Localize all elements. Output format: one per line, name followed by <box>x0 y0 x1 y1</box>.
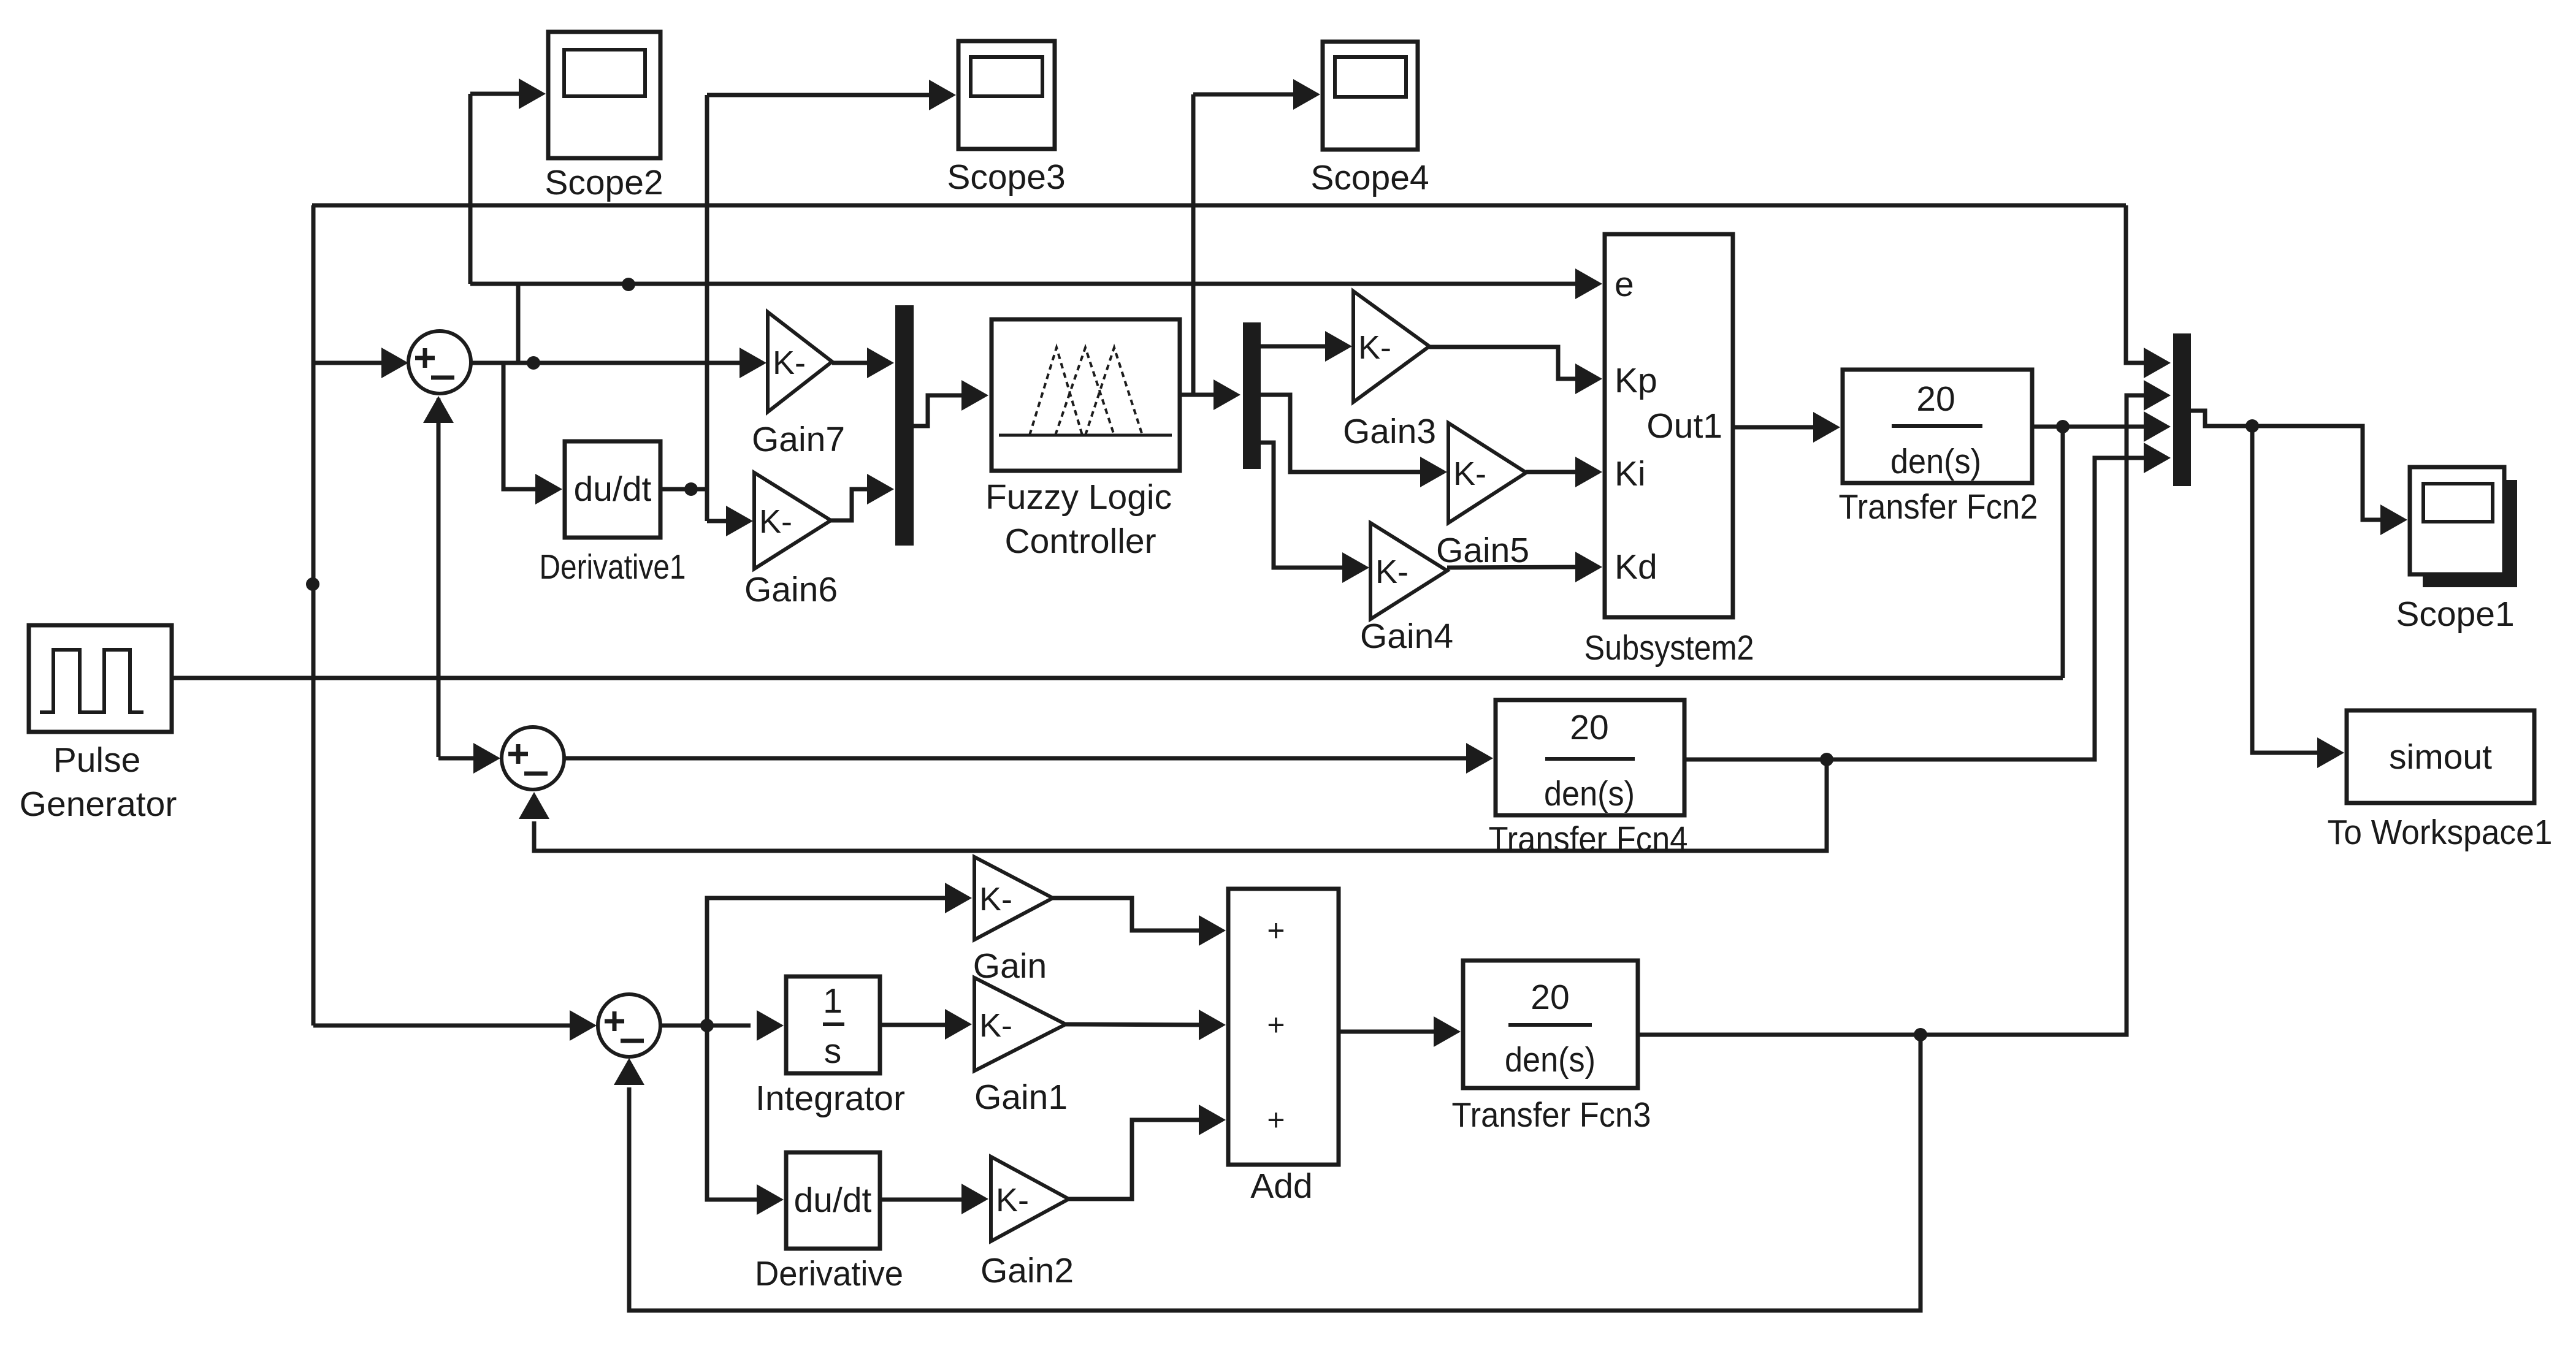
svg-text:du/dt: du/dt <box>794 1181 872 1220</box>
scope block Scope3 <box>947 41 1065 197</box>
svg-text:Kd: Kd <box>1615 547 1657 587</box>
wire branch down to Derivative1 <box>503 363 541 489</box>
block Derivative (du/dt) <box>755 1152 903 1293</box>
gain block Gain5 <box>1436 423 1529 570</box>
block Add <box>1228 889 1339 1206</box>
svg-text:Generator: Generator <box>20 785 177 824</box>
svg-text:e: e <box>1615 265 1634 304</box>
svg-text:Scope1: Scope1 <box>2396 595 2514 634</box>
arrow into Add plus3 <box>1199 1105 1226 1135</box>
svg-text:den(s): den(s) <box>1890 442 1981 481</box>
gain block Gain <box>973 857 1053 986</box>
sum block sum1 <box>408 331 471 394</box>
wire Gain7 output <box>832 361 873 365</box>
wire Gain2 output to Add <box>1069 1120 1205 1199</box>
wire Transfer Fcn2 output to big mux <box>2032 425 2147 429</box>
wire Add output to Transfer Fcn3 <box>1339 1030 1440 1034</box>
svg-text:20: 20 <box>1916 379 1955 419</box>
sum block middle sum <box>502 727 564 790</box>
svg-text:Ki: Ki <box>1615 454 1646 493</box>
arrow into Subsystem2 Ki <box>1575 457 1602 487</box>
junction dot bottom sum output branch <box>700 1019 714 1032</box>
svg-text:K-: K- <box>996 1182 1029 1219</box>
wire Scope3 feed <box>707 93 935 97</box>
arrow into Transfer Fcn2 <box>1813 412 1840 443</box>
wire Scope2 feed <box>470 92 525 96</box>
svg-text:Controller: Controller <box>1004 522 1156 561</box>
svg-text:Transfer Fcn4: Transfer Fcn4 <box>1489 820 1688 859</box>
block Pulse Generator <box>20 625 177 824</box>
wire Fuzzy output <box>1180 393 1220 397</box>
svg-text:K-: K- <box>979 1007 1012 1044</box>
svg-text:K-: K- <box>1358 329 1391 366</box>
arrow up into middle sum bottom <box>519 792 549 819</box>
block Transfer Fcn2 <box>1839 370 2038 527</box>
scope block Scope4 <box>1310 42 1429 197</box>
block Transfer Fcn4 <box>1489 700 1688 859</box>
svg-text:Scope4: Scope4 <box>1310 158 1429 197</box>
junction dot sum1 output branch <box>527 356 540 370</box>
svg-text:Gain6: Gain6 <box>744 570 838 609</box>
svg-text:+: + <box>1267 1008 1285 1042</box>
arrow into Gain3 <box>1325 331 1352 362</box>
arrow into Derivative <box>757 1184 784 1215</box>
svg-text:Transfer Fcn2: Transfer Fcn2 <box>1839 487 2038 527</box>
mux block big (4-input scope mux) <box>2173 333 2191 486</box>
svg-text:den(s): den(s) <box>1505 1040 1596 1079</box>
arrow into sum1 <box>381 348 408 378</box>
gain block Gain3 <box>1343 291 1436 451</box>
arrow into big mux input4 <box>2144 443 2171 473</box>
mux block (2-input mux before fuzzy controller) <box>895 305 914 546</box>
wire Transfer Fcn3 output to big mux input 2 <box>1638 395 2149 1035</box>
demux block (after fuzzy controller) <box>1243 322 1261 469</box>
junction dot Derivative1 output branch <box>684 482 698 496</box>
wire branch to To Workspace1 <box>2252 426 2323 753</box>
wire branch down to Derivative <box>707 1026 763 1200</box>
arrow into Gain4 <box>1342 552 1369 583</box>
wire into Gain6 <box>707 519 732 523</box>
arrow into Gain7 <box>740 348 766 378</box>
wire reference into bottom sum <box>313 1024 574 1028</box>
arrow into middle sum left <box>473 743 500 774</box>
arrow into big mux input3 <box>2144 411 2171 442</box>
wire Gain4 output to Kd <box>1447 567 1581 568</box>
arrow into Gain <box>945 883 972 913</box>
svg-text:20: 20 <box>1531 978 1569 1017</box>
block Integrator (1/s) <box>755 976 905 1118</box>
wire Derivative1 output <box>660 487 707 492</box>
arrow into Add plus1 <box>1199 915 1226 946</box>
svg-text:Pulse: Pulse <box>53 740 141 780</box>
wire into middle sum left input <box>438 756 480 761</box>
wire into sum1 left input <box>313 361 386 365</box>
svg-text:Derivative1: Derivative1 <box>540 547 686 587</box>
svg-text:K-: K- <box>759 503 792 540</box>
gain block Gain7 <box>752 312 845 459</box>
svg-text:Gain1: Gain1 <box>974 1078 1068 1117</box>
arrow into Scope3 <box>929 80 956 110</box>
arrow into mux from Gain6 <box>867 474 894 504</box>
svg-text:K-: K- <box>1375 554 1408 590</box>
wire Scope4 vertical x=1946 <box>1191 94 1196 395</box>
svg-text:Fuzzy Logic: Fuzzy Logic <box>985 478 1172 517</box>
svg-text:Transfer Fcn3: Transfer Fcn3 <box>1452 1095 1651 1135</box>
arrow into Subsystem2 e <box>1575 268 1602 299</box>
wire Mux output into Fuzzy Logic Controller <box>914 395 968 426</box>
wire Transfer Fcn4 output to big mux input 4 <box>1684 458 2147 759</box>
svg-text:+: + <box>1267 1103 1285 1137</box>
block Fuzzy Logic Controller <box>985 319 1180 561</box>
svg-text:K-: K- <box>979 881 1012 918</box>
svg-text:den(s): den(s) <box>1544 774 1635 813</box>
arrow up into bottom sum <box>614 1058 644 1085</box>
svg-text:20: 20 <box>1570 708 1608 747</box>
wire sum1 output <box>471 361 746 365</box>
wire Transfer Fcn2 feedback drop x=3364 <box>2061 427 2065 678</box>
gain block Gain4 <box>1360 523 1453 656</box>
block Transfer Fcn3 <box>1452 961 1651 1135</box>
wire feedback vertical x=715 (sum1 minus / middle sum feed) <box>437 398 441 757</box>
arrow into mux from Gain7 <box>867 348 894 378</box>
svg-text:1: 1 <box>823 981 843 1021</box>
svg-text:K-: K- <box>1453 455 1486 492</box>
arrow into big mux input2 <box>2144 380 2171 411</box>
wire Demux output 1 to Gain3 <box>1261 344 1331 349</box>
arrow into Derivative1 <box>535 474 562 504</box>
wire branch up to Gain <box>707 898 951 1026</box>
svg-text:du/dt: du/dt <box>574 470 652 509</box>
wire middle sum output <box>564 756 1472 761</box>
wire Scope4 feed <box>1193 93 1299 97</box>
scope block Scope1 (with shadow) <box>2396 467 2517 634</box>
wire Gain output to Add <box>1053 898 1205 930</box>
svg-text:Add: Add <box>1250 1166 1312 1206</box>
arrow into Subsystem2 Kd <box>1575 552 1602 582</box>
wire Gain3 output to Kp <box>1429 347 1581 379</box>
arrow into Gain6 <box>726 506 753 536</box>
svg-text:+: + <box>1267 913 1285 948</box>
wire Transfer Fcn4 feedback <box>534 759 1827 851</box>
wire bus drop into big mux input 1 <box>2126 205 2149 363</box>
arrow into Subsystem2 Kp <box>1575 363 1602 394</box>
arrow into Gain5 <box>1420 457 1447 487</box>
arrow into bottom sum <box>570 1010 597 1041</box>
svg-text:Gain5: Gain5 <box>1436 531 1529 570</box>
svg-text:simout: simout <box>2389 737 2492 777</box>
svg-text:Gain2: Gain2 <box>980 1251 1074 1290</box>
gain block Gain2 <box>980 1157 1074 1290</box>
block Subsystem2 <box>1584 234 1754 668</box>
wire big mux output to Scope1 <box>2191 411 2387 520</box>
svg-text:Gain4: Gain4 <box>1360 617 1453 656</box>
svg-text:s: s <box>824 1032 842 1071</box>
wire Derivative output to Gain2 <box>880 1198 968 1202</box>
svg-text:Out1: Out1 <box>1646 406 1722 446</box>
block To Workspace1 (simout) <box>2328 710 2553 852</box>
wire Gain6 output <box>831 489 873 520</box>
wire Transfer Fcn3 feedback (bottom loop) <box>629 1035 1921 1311</box>
svg-text:K-: K- <box>773 344 806 381</box>
junction dot on e-bus <box>622 278 635 291</box>
junction dot Transfer Fcn4 output branch <box>1820 753 1833 766</box>
svg-text:Gain3: Gain3 <box>1343 412 1436 451</box>
wire pulse bus y=1106 (Pulse Generator output / plant feedback return) <box>170 676 2063 680</box>
svg-text:Subsystem2: Subsystem2 <box>1584 628 1754 668</box>
arrow into big mux input1 <box>2144 348 2171 378</box>
svg-text:Gain: Gain <box>973 946 1047 986</box>
arrow into demux <box>1213 379 1240 410</box>
svg-text:Scope2: Scope2 <box>545 163 663 202</box>
wire bottom sum output <box>660 1024 751 1028</box>
gain block Gain6 <box>744 473 838 609</box>
svg-text:Kp: Kp <box>1615 361 1657 400</box>
svg-text:Gain7: Gain7 <box>752 420 845 459</box>
junction dot Transfer Fcn2 output branch <box>2056 420 2070 433</box>
wire top bus y=335 (reference to scope mux) <box>312 204 2126 208</box>
wire Demux output 3 to Gain4 <box>1261 443 1348 568</box>
arrow into Fuzzy Logic Controller <box>961 380 988 411</box>
gain block Gain1 <box>974 978 1068 1117</box>
wire long vertical x=511 (reference distribution) <box>311 205 316 1026</box>
arrow into Add plus2 <box>1199 1010 1226 1040</box>
wire Integrator output to Gain1 <box>880 1023 951 1027</box>
junction dot on reference vertical <box>306 577 319 591</box>
wire Scope2 drop x=767 <box>468 94 473 284</box>
arrow into Scope4 <box>1293 79 1320 110</box>
scope block Scope2 <box>545 32 663 202</box>
svg-text:Scope3: Scope3 <box>947 158 1065 197</box>
arrow into Transfer Fcn4 <box>1466 743 1493 774</box>
wire Gain1 output to Add <box>1066 1024 1205 1025</box>
arrow into Scope2 <box>519 78 546 109</box>
block Derivative1 (du/dt) <box>540 441 686 587</box>
sum block bottom sum <box>598 994 660 1057</box>
arrow up into sum1 bottom <box>423 396 454 423</box>
junction dot Transfer Fcn3 output branch <box>1914 1028 1927 1041</box>
wire Subsystem2 output <box>1733 425 1819 430</box>
svg-text:To Workspace1: To Workspace1 <box>2328 813 2553 852</box>
wire vertical x=1153 (derivative of error net) <box>705 95 709 521</box>
arrow into Gain1 <box>945 1009 972 1040</box>
wire Demux output 2 to Gain5 <box>1261 395 1426 472</box>
svg-text:Derivative: Derivative <box>755 1254 903 1293</box>
arrow into Scope1 <box>2380 504 2407 535</box>
wire Gain5 output to Ki <box>1526 470 1581 474</box>
wire error branch up to e-bus <box>516 284 521 363</box>
wire e-bus y=463 <box>470 282 1581 286</box>
arrow into Integrator <box>757 1010 784 1041</box>
junction dot big mux output branch <box>2245 419 2259 433</box>
svg-text:Integrator: Integrator <box>755 1079 905 1118</box>
arrow into To Workspace1 <box>2317 737 2344 768</box>
arrow into Transfer Fcn3 <box>1434 1016 1461 1047</box>
arrow into Gain2 <box>961 1184 988 1214</box>
